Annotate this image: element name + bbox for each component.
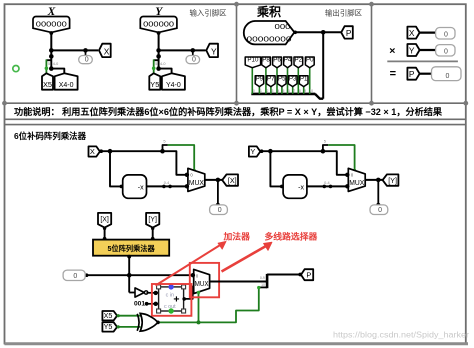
wire X4-0 bits — [51, 69, 64, 74]
node product bus junction — [127, 273, 132, 278]
svg-text:0: 0 — [378, 207, 382, 214]
tunnel P0 — [305, 57, 314, 68]
splitter X — [46, 59, 51, 61]
svg-text:4: 4 — [278, 89, 280, 93]
combiner splitter to P — [266, 274, 269, 288]
tunnel P9 — [255, 76, 264, 87]
red arrow to mux label — [222, 246, 267, 272]
frame junction dots — [234, 2, 239, 7]
svg-text:[X]: [X] — [100, 217, 109, 224]
tunnel P10 — [245, 57, 260, 68]
svg-text:0: 0 — [85, 56, 89, 63]
wire Y4-0 bits — [159, 69, 172, 74]
svg-text:0-4: 0-4 — [324, 181, 330, 185]
svg-text:10: 10 — [309, 89, 313, 93]
wire bit P8 — [265, 67, 267, 94]
svg-text:P6: P6 — [273, 56, 281, 63]
wire result X — [420, 31, 437, 33]
tunnel X5 source — [102, 311, 117, 320]
probe result P value 0 — [432, 67, 462, 81]
svg-text:X5: X5 — [43, 80, 52, 89]
svg-text:5: 5 — [155, 62, 157, 66]
red highlight box adder — [152, 284, 192, 316]
svg-text:MUX: MUX — [349, 180, 364, 187]
result tunnel Y — [407, 44, 419, 56]
svg-text:3: 3 — [271, 89, 273, 93]
svg-text:P: P — [346, 28, 352, 38]
wire [X] to multiplier — [104, 228, 106, 240]
input pin X 000000 — [33, 17, 70, 33]
red highlight box mux — [190, 263, 219, 297]
svg-text:功能说明： 利用五位阵列乘法器6位×6位的补码阵列乘法器，乘: 功能说明： 利用五位阵列乘法器6位×6位的补码阵列乘法器，乘积P = X × Y… — [14, 106, 443, 117]
svg-text:8: 8 — [299, 89, 301, 93]
tunnel X5 — [42, 73, 53, 89]
tunnel [Y] source top — [146, 213, 159, 228]
svg-text:4-0: 4-0 — [160, 62, 166, 66]
svg-text:X: X — [90, 147, 95, 156]
node product junction — [321, 30, 326, 35]
svg-text:Y: Y — [409, 45, 415, 55]
wire product bundle down — [322, 32, 324, 98]
red arrow to adder label — [156, 245, 221, 286]
wire negator Y out — [307, 185, 348, 187]
wire negator X out — [147, 185, 188, 187]
adder U1 body — [159, 287, 184, 311]
node mux X out junction — [216, 178, 221, 183]
svg-text:5: 5 — [48, 62, 50, 66]
svg-text:X: X — [104, 47, 110, 57]
adder selection handles — [157, 285, 161, 289]
wire mux X out — [205, 179, 223, 181]
tunnel P7 — [267, 76, 276, 87]
wire X to negator — [110, 151, 123, 186]
fraction bar — [387, 60, 458, 62]
probe Y value 0 — [186, 56, 200, 64]
svg-text:Y5: Y5 — [150, 80, 159, 89]
svg-text:P: P — [306, 271, 311, 280]
svg-text:0: 0 — [446, 73, 450, 80]
wire bit P0 — [309, 67, 311, 94]
splitter Y — [154, 59, 159, 61]
adder carry-out port green — [168, 308, 173, 313]
svg-text:X4-0: X4-0 — [59, 82, 74, 89]
tunnel X4-0 — [55, 73, 78, 89]
wire Y probe stub — [192, 50, 194, 55]
tunnel P6 — [273, 57, 282, 68]
svg-text:-x: -x — [298, 185, 304, 192]
svg-text:5位阵列乘法器: 5位阵列乘法器 — [108, 244, 156, 253]
mux U3 result selector — [194, 269, 210, 293]
tunnel Y — [206, 44, 218, 57]
multiplier 5位阵列乘法器 — [93, 240, 169, 256]
probe result Y value 0 — [436, 45, 455, 56]
wire Y probe stub — [377, 180, 379, 206]
svg-text:乘积: 乘积 — [256, 4, 281, 19]
tunnel Y5 source — [102, 322, 117, 331]
svg-text:001: 001 — [134, 301, 145, 308]
wire X sign to mux select — [168, 145, 194, 171]
probe abs X value 0 — [210, 205, 228, 215]
green circle annotation — [13, 66, 19, 72]
svg-text:=: = — [390, 68, 396, 80]
svg-text:P1: P1 — [300, 75, 308, 82]
wire bit P6 — [276, 67, 278, 94]
svg-text:MUX: MUX — [195, 281, 209, 288]
svg-text:5: 5 — [282, 89, 284, 93]
divider circuit panel top — [5, 124, 466, 126]
tunnel Y source — [249, 146, 260, 156]
wire Y sign to mux select — [328, 145, 354, 171]
wire bit P10 — [251, 67, 253, 94]
node Y probe junction — [191, 48, 196, 53]
not gate inverter — [129, 292, 134, 294]
wire X main — [100, 151, 187, 175]
tunnel X source — [89, 146, 100, 156]
tunnel P2 — [294, 57, 303, 68]
wire X probe stub — [217, 180, 219, 206]
wire sign green routing — [158, 287, 259, 322]
wire Y5 to xor — [117, 326, 140, 328]
probe result X value 0 — [436, 28, 455, 40]
svg-text:Y5: Y5 — [104, 322, 113, 331]
svg-text:P4: P4 — [284, 56, 292, 63]
splitter product trunk — [315, 94, 323, 99]
svg-text:P9: P9 — [256, 75, 264, 82]
wire X probe stub — [85, 50, 87, 55]
node X branch junction — [108, 149, 113, 154]
svg-text:P: P — [409, 69, 415, 79]
result tunnel P — [407, 68, 419, 80]
tunnel [Y] dest — [383, 174, 399, 185]
node X splitter junction — [49, 54, 54, 59]
svg-text:000: 000 — [275, 22, 291, 31]
svg-text:Y4-0: Y4-0 — [166, 82, 181, 89]
wire not out to adder — [147, 292, 159, 294]
wire bit P9 — [258, 86, 260, 94]
tunnel P8 — [262, 57, 271, 68]
svg-text:输入引脚区: 输入引脚区 — [190, 9, 228, 18]
splitter product bar — [251, 93, 315, 96]
wire result Y — [420, 49, 437, 51]
svg-text:MUX: MUX — [189, 180, 204, 187]
adder carry-in port blue — [168, 284, 173, 289]
wire bit P2 — [297, 67, 299, 94]
mux Y — [348, 168, 365, 191]
tunnel P4 — [284, 57, 292, 68]
svg-text:X: X — [409, 28, 415, 38]
svg-text:2: 2 — [266, 89, 268, 93]
wire bit P4 — [287, 67, 289, 94]
svg-text:6: 6 — [288, 89, 290, 93]
negator -x Y — [283, 175, 307, 198]
wire bit P7 — [270, 86, 272, 94]
svg-text:7: 7 — [293, 89, 295, 93]
wire bit P5 — [281, 86, 283, 94]
svg-text:P0: P0 — [306, 56, 314, 63]
wire Y to negator — [270, 151, 283, 186]
svg-text:Y: Y — [211, 47, 217, 57]
tunnel P1 — [299, 76, 308, 87]
wire [Y] to multiplier — [152, 228, 154, 240]
svg-text:0: 0 — [444, 49, 448, 56]
svg-text:输出引脚区: 输出引脚区 — [325, 9, 363, 18]
probe raw product value 0 — [63, 270, 85, 280]
svg-text:000000: 000000 — [143, 20, 174, 29]
wire product bus to mux — [86, 274, 193, 276]
wire X to tunnel X — [51, 49, 98, 51]
input pin Y 000000 — [140, 17, 177, 33]
svg-text:P3: P3 — [289, 75, 297, 82]
output pin P product display — [244, 21, 295, 44]
divider below pin area — [5, 102, 466, 104]
tunnel [X] source top — [98, 213, 111, 228]
svg-text:0-9: 0-9 — [260, 276, 265, 280]
probe X value 0 — [79, 56, 93, 64]
wire Y5 sign bit — [153, 59, 155, 73]
svg-text:×: × — [389, 45, 395, 57]
svg-text:P5: P5 — [278, 75, 286, 82]
divider text band bottom — [5, 118, 466, 120]
wire Y pin down — [158, 32, 160, 56]
node sign junction green — [197, 320, 201, 324]
splitter X sign tap — [160, 149, 165, 154]
wire bit P3 — [292, 86, 294, 94]
wire constant to adder — [147, 303, 159, 305]
svg-text:0: 0 — [73, 273, 77, 280]
svg-text:[Y]: [Y] — [388, 176, 397, 185]
tunnel Y5 — [149, 73, 160, 89]
wire combiner to tunnel P — [267, 274, 301, 276]
panel bottom thick edge — [5, 342, 469, 345]
svg-text:[X]: [X] — [228, 176, 237, 185]
wire Y to tunnel Y — [159, 49, 206, 51]
mux select wire green — [198, 292, 200, 322]
svg-text:0: 0 — [253, 89, 255, 93]
node Y branch junction — [268, 149, 273, 154]
xor gate sign — [140, 313, 157, 331]
wire mux out to combiner — [210, 281, 268, 283]
wire X5 sign bit — [45, 59, 47, 73]
svg-text:https://blog.csdn.net/Spidy_ha: https://blog.csdn.net/Spidy_harker — [333, 330, 469, 339]
node Y junction — [156, 48, 161, 53]
wire bit P1 — [303, 86, 305, 94]
svg-text:多线路选择器: 多线路选择器 — [265, 231, 318, 242]
wire result P — [420, 73, 433, 75]
svg-text:4-0: 4-0 — [53, 62, 59, 66]
tunnel [X] dest — [222, 174, 238, 185]
tunnel P3 — [288, 76, 297, 87]
divider vertical before result display area — [371, 4, 373, 103]
svg-text:0: 0 — [444, 32, 448, 39]
wire X5 to xor — [117, 315, 140, 317]
svg-text:X5: X5 — [104, 311, 113, 320]
probe abs Y value 0 — [370, 205, 388, 215]
negator -x X — [123, 175, 147, 198]
svg-text:P2: P2 — [295, 56, 303, 63]
wire Y main — [260, 151, 348, 175]
divider vertical between input area and product area — [236, 4, 238, 103]
svg-text:00000000: 00000000 — [247, 35, 292, 44]
svg-text:0: 0 — [192, 56, 196, 63]
svg-text:0-4: 0-4 — [164, 181, 170, 185]
splitter Y sign tap — [321, 149, 326, 154]
svg-text:P10: P10 — [247, 56, 259, 63]
svg-text:9: 9 — [304, 89, 306, 93]
wire product pin to tunnel P — [294, 31, 341, 33]
tunnel P5 — [278, 76, 287, 87]
wire mux Y out — [365, 179, 383, 181]
tunnel X — [99, 44, 111, 57]
svg-text:加法器: 加法器 — [223, 231, 251, 242]
tunnel P dest — [301, 269, 313, 280]
node Y splitter junction — [156, 54, 161, 59]
tunnel Y4-0 — [162, 73, 185, 89]
node X probe junction — [83, 48, 88, 53]
svg-text:000000: 000000 — [36, 20, 67, 29]
svg-text:-x: -x — [138, 185, 144, 192]
svg-text:1: 1 — [260, 89, 262, 93]
svg-text:P7: P7 — [267, 75, 275, 82]
svg-text:P8: P8 — [262, 56, 270, 63]
mux X — [188, 168, 205, 191]
svg-text:6位补码阵列乘法器: 6位补码阵列乘法器 — [14, 130, 86, 141]
svg-text:10: 10 — [261, 283, 265, 287]
node X junction — [49, 48, 54, 53]
svg-text:0: 0 — [218, 207, 222, 214]
svg-text:[Y]: [Y] — [148, 217, 157, 224]
svg-text:Y: Y — [250, 147, 255, 156]
wire X pin down — [50, 32, 52, 56]
wire multiplier out down — [128, 256, 130, 293]
node mux Y out junction — [376, 178, 381, 183]
result tunnel X — [407, 27, 419, 39]
tunnel P output — [341, 26, 353, 38]
wire adder out to mux input1 — [184, 287, 194, 299]
